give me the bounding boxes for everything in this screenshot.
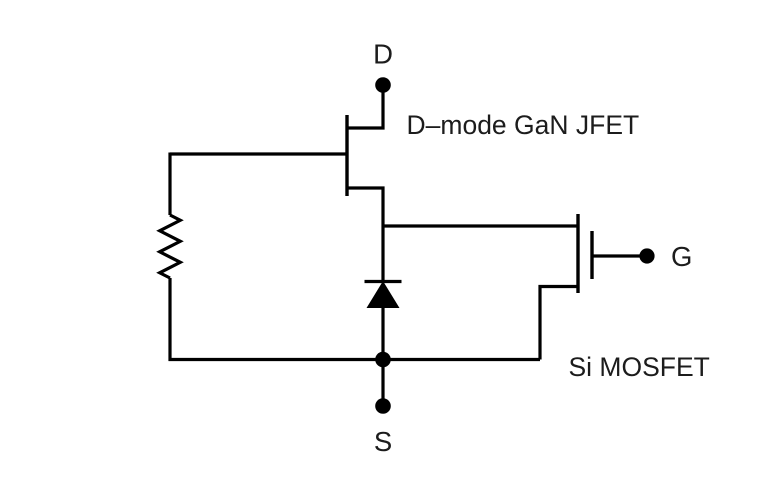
terminal G dot — [639, 248, 654, 263]
svg-text:D–mode GaN JFET: D–mode GaN JFET — [407, 110, 640, 140]
terminal D dot — [375, 77, 391, 93]
resistor R1 — [160, 215, 181, 278]
wire: D terminal to JFET drain — [347, 85, 383, 128]
transistor Q1 Si MOSFET channel bar — [576, 214, 579, 293]
svg-text:Si MOSFET: Si MOSFET — [569, 352, 710, 382]
svg-text:D: D — [373, 39, 393, 70]
transistor U1 D-mode GaN JFET channel bar — [345, 115, 348, 196]
wire: left branch upper segment — [168, 153, 171, 216]
wire: JFET gate lead to left branch — [170, 152, 347, 155]
node: bottom junction dot — [375, 352, 391, 368]
wire: MOSFET gate lead to G terminal — [592, 254, 647, 257]
svg-text:G: G — [671, 241, 692, 272]
diode D1 triangle — [367, 282, 398, 308]
wire: bottom rail — [169, 358, 541, 361]
svg-text:S: S — [374, 426, 392, 457]
wire: diode anode to bottom node — [381, 307, 384, 360]
wire: branch from JFET source to MOSFET drain — [383, 224, 578, 227]
wire: left branch lower segment — [168, 278, 171, 361]
wire: JFET source lead down to diode — [347, 188, 383, 281]
wire: MOSFET source lead to bottom rail — [540, 287, 578, 360]
terminal S dot — [375, 398, 391, 414]
diode D1 cathode bar — [365, 280, 402, 283]
wire: bottom node to S terminal — [381, 360, 384, 407]
transistor Q1 gate bar — [590, 231, 593, 279]
